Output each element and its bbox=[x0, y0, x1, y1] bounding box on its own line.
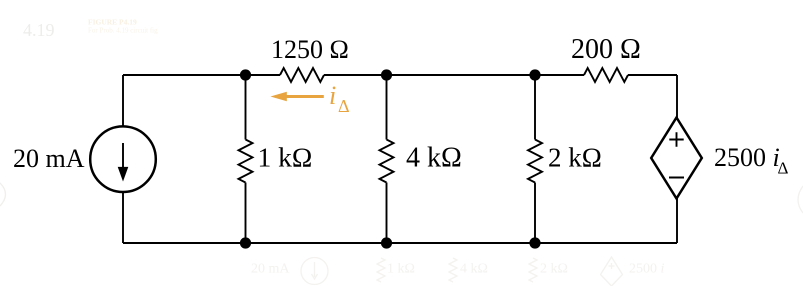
svg-text:4 kΩ: 4 kΩ bbox=[460, 262, 488, 277]
svg-text:i: i bbox=[329, 81, 336, 110]
svg-text:1 kΩ: 1 kΩ bbox=[387, 262, 415, 277]
svg-text:2500 i: 2500 i bbox=[714, 143, 780, 172]
svg-text:Δ: Δ bbox=[338, 96, 350, 116]
svg-text:4 kΩ: 4 kΩ bbox=[406, 143, 462, 174]
svg-text:200 Ω: 200 Ω bbox=[571, 34, 641, 65]
svg-text:20 mA: 20 mA bbox=[251, 262, 290, 277]
svg-text:1 kΩ: 1 kΩ bbox=[258, 142, 313, 173]
svg-text:For Prob. 4.19 circuit fig: For Prob. 4.19 circuit fig bbox=[88, 27, 158, 35]
svg-text:2500 i: 2500 i bbox=[629, 262, 665, 277]
svg-text:1250 Ω: 1250 Ω bbox=[271, 35, 349, 64]
svg-text:20 mA: 20 mA bbox=[13, 144, 85, 173]
svg-text:FIGURE P4.19: FIGURE P4.19 bbox=[88, 18, 137, 27]
svg-text:2 kΩ: 2 kΩ bbox=[548, 143, 602, 173]
svg-text:2 kΩ: 2 kΩ bbox=[540, 262, 568, 277]
svg-text:4.19: 4.19 bbox=[23, 20, 55, 40]
svg-text:Δ: Δ bbox=[778, 159, 789, 178]
